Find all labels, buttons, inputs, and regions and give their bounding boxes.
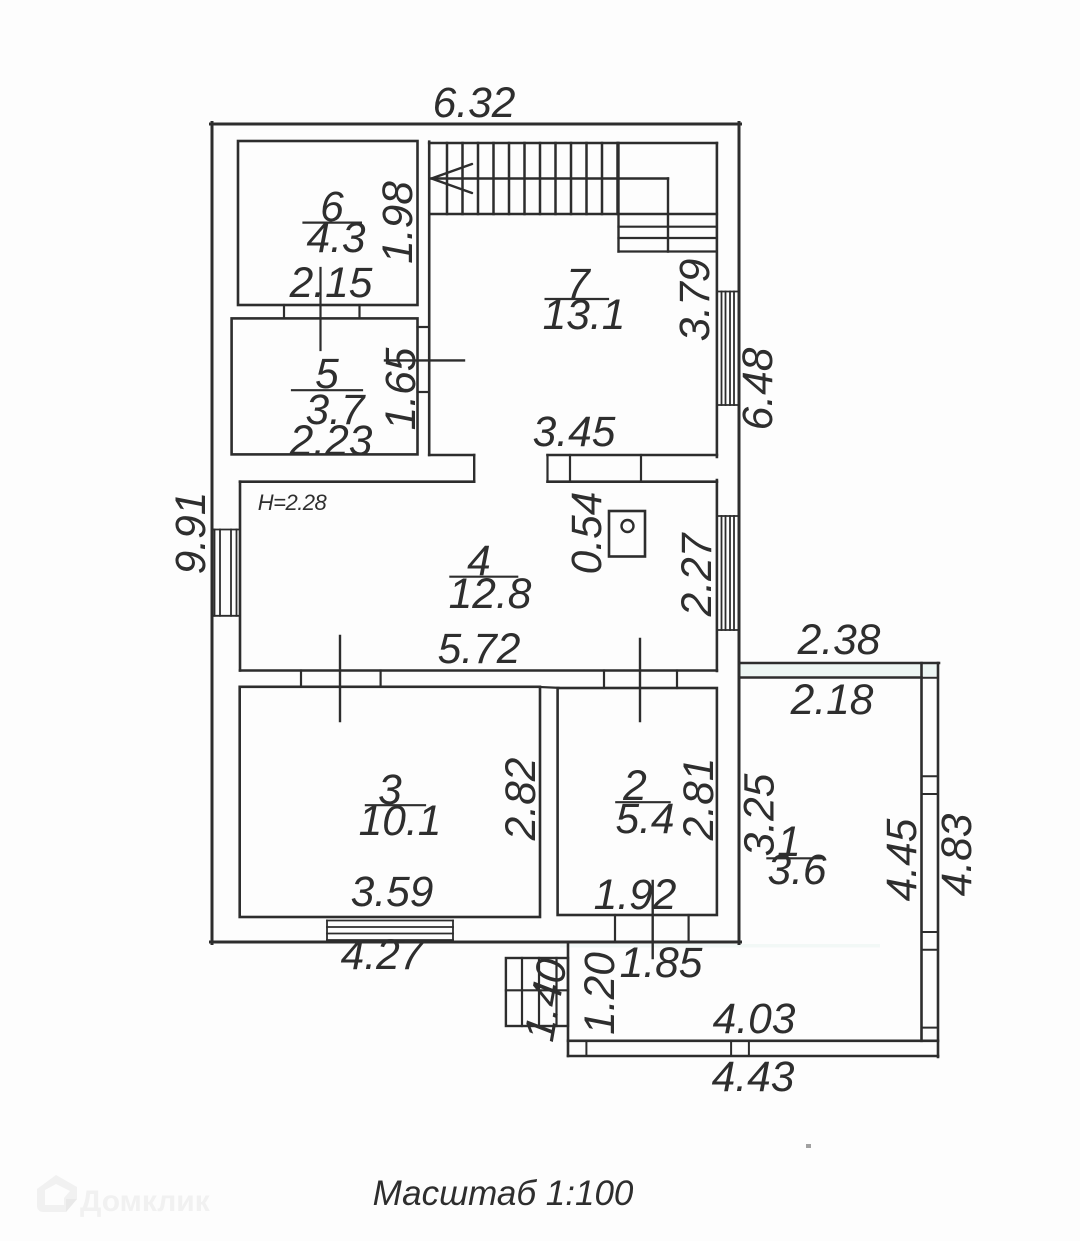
door jambs room5-room7 (418, 326, 430, 328)
watermark Domclick logo house icon (37, 1175, 77, 1212)
door jambs between room 6 and room 5 (283, 305, 285, 318)
stove circle (622, 520, 634, 532)
svg-text:1.65: 1.65 (378, 347, 425, 430)
svg-text:3.59: 3.59 (351, 869, 434, 916)
svg-text:5.4: 5.4 (615, 796, 674, 843)
svg-text:Домклик: Домклик (80, 1185, 211, 1218)
porch steps outline (506, 958, 568, 1026)
svg-text:4.43: 4.43 (712, 1054, 795, 1101)
svg-text:4.27: 4.27 (341, 932, 425, 979)
window bottom wall (3.59/4.27) (327, 921, 453, 941)
outer wall bottom (211, 941, 741, 944)
svg-text:0.54: 0.54 (564, 492, 611, 575)
wall room7/room4 bottom face (240, 480, 474, 483)
svg-text:2.38: 2.38 (797, 617, 881, 664)
room 3 box (240, 687, 540, 917)
outer wall right (738, 123, 741, 944)
wall connector rooms 3-2 (539, 686, 559, 689)
cyan tint on veranda top wall (740, 665, 937, 677)
veranda bottom wall outer (568, 1055, 938, 1058)
veranda right wall inner (920, 663, 923, 1041)
stairs band bottom (429, 213, 717, 215)
veranda left wall of lower strip (567, 942, 570, 1056)
room 7 top inner wall (429, 142, 717, 145)
witness line at room2 bottom door (652, 881, 654, 958)
veranda right wall outer (937, 663, 940, 1057)
svg-text:1.98: 1.98 (375, 181, 422, 264)
door leaf line from room5 (385, 359, 464, 361)
veranda bottom wall ticks (586, 1041, 749, 1056)
svg-text:9.91: 9.91 (168, 492, 215, 575)
outer wall top (211, 123, 741, 126)
stair lower flight treads (619, 227, 717, 252)
room 6 box (238, 141, 418, 305)
svg-text:4.03: 4.03 (713, 996, 796, 1043)
witness line at room2 door (639, 639, 641, 721)
window right wall upper (3.79) (717, 292, 739, 406)
porch steps mid horizontal (506, 989, 568, 991)
svg-text:1.20: 1.20 (577, 952, 624, 1035)
scan speck (806, 1144, 811, 1148)
svg-text:2.15: 2.15 (289, 260, 373, 307)
outer wall left (211, 123, 214, 944)
stair direction arrow (432, 164, 473, 193)
svg-text:10.1: 10.1 (359, 798, 442, 845)
svg-text:3.79: 3.79 (672, 259, 719, 342)
window right wall middle (2.27) (717, 516, 739, 630)
door jambs room4-room2 (603, 671, 605, 689)
cyan tint under bottom wall (560, 944, 880, 948)
wall room7/room4 top face (429, 454, 474, 457)
svg-text:3.6: 3.6 (767, 847, 826, 894)
stove box (609, 511, 645, 557)
svg-text:2.82: 2.82 (498, 757, 545, 841)
svg-text:Масштаб 1:100: Масштаб 1:100 (373, 1174, 634, 1213)
svg-text:2.23: 2.23 (289, 418, 373, 465)
svg-text:4.83: 4.83 (934, 813, 981, 896)
witness line at room3 door (339, 636, 341, 721)
svg-text:H=2.28: H=2.28 (258, 490, 328, 515)
room 4 left inner wall (239, 482, 242, 671)
svg-text:3.45: 3.45 (533, 409, 616, 456)
door sill verticals room7/room4 (546, 455, 548, 482)
room 2 box (558, 688, 717, 915)
room 4 right inner wall (716, 480, 719, 671)
svg-text:1.85: 1.85 (620, 940, 703, 987)
veranda top wall inner (739, 676, 922, 679)
door jambs room4-room3 (300, 671, 302, 687)
room 7 right inner wall (716, 143, 719, 457)
svg-text:6.48: 6.48 (735, 347, 782, 430)
wall step vertical at door of room7 (473, 455, 475, 482)
door jambs room2 bottom (614, 915, 616, 942)
svg-text:2.81: 2.81 (676, 758, 723, 842)
wall room7 left (stair side) (428, 142, 431, 455)
svg-text:2.27: 2.27 (674, 532, 721, 617)
room 5 box (232, 318, 418, 454)
stair landing verticals (617, 143, 619, 252)
svg-text:1.92: 1.92 (594, 872, 677, 919)
svg-text:12.8: 12.8 (449, 571, 532, 618)
window left wall (9.91) (212, 530, 240, 616)
porch steps verticals (522, 958, 557, 1026)
stair treads (447, 143, 618, 214)
veranda top wall outer (739, 662, 939, 665)
stairs mid stringer line (430, 177, 668, 179)
svg-text:6.32: 6.32 (433, 80, 516, 127)
veranda bottom wall inner (568, 1040, 938, 1043)
svg-text:4.45: 4.45 (879, 818, 926, 901)
svg-text:2.18: 2.18 (790, 677, 874, 724)
svg-text:4.3: 4.3 (306, 215, 365, 262)
veranda right wall ticks (922, 678, 939, 1028)
witness line for dim 2.15 (319, 268, 321, 350)
svg-text:5.72: 5.72 (438, 626, 521, 673)
room 4 bottom wall (240, 669, 717, 672)
svg-text:13.1: 13.1 (543, 292, 626, 339)
